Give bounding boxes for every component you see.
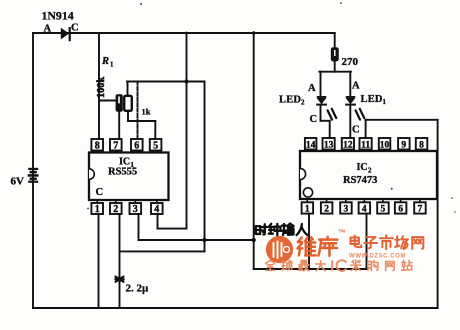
svg-text:C: C (96, 187, 104, 198)
svg-text:LED: LED (279, 95, 301, 106)
svg-text:6: 6 (134, 141, 139, 152)
svg-text:14: 14 (306, 141, 316, 151)
svg-text:WWW.DZSC.COM: WWW.DZSC.COM (349, 254, 406, 260)
svg-text:LED: LED (361, 94, 383, 105)
svg-text:2: 2 (324, 205, 329, 215)
svg-text:5: 5 (381, 205, 386, 215)
svg-text:RS7473: RS7473 (343, 175, 377, 186)
svg-text:5: 5 (153, 141, 158, 152)
svg-text:1: 1 (95, 204, 100, 215)
svg-text:C: C (71, 22, 79, 33)
svg-text:7: 7 (113, 141, 118, 152)
svg-text:12: 12 (343, 141, 353, 151)
svg-text:11: 11 (361, 141, 370, 151)
svg-text:TM: TM (339, 229, 346, 234)
svg-text:100k: 100k (96, 77, 107, 98)
svg-text:2. 2μ: 2. 2μ (126, 283, 150, 295)
svg-text:270: 270 (342, 56, 359, 68)
svg-text:1k: 1k (142, 107, 151, 117)
svg-text:7: 7 (418, 205, 423, 215)
svg-text:C: C (352, 125, 360, 136)
svg-text:R: R (101, 56, 109, 67)
svg-text:9: 9 (401, 141, 406, 151)
svg-text:2: 2 (368, 167, 372, 175)
svg-text:8: 8 (95, 141, 100, 152)
svg-text:3: 3 (133, 204, 138, 215)
svg-text:A: A (308, 83, 316, 94)
svg-text:1: 1 (305, 205, 310, 215)
svg-text:4: 4 (362, 205, 367, 215)
svg-text:1: 1 (110, 61, 114, 69)
svg-text:C: C (310, 114, 318, 125)
svg-text:4: 4 (154, 204, 159, 215)
svg-text:6V: 6V (11, 176, 25, 188)
svg-text:A: A (44, 23, 52, 34)
svg-text:2: 2 (301, 99, 305, 107)
svg-text:IC: IC (357, 162, 368, 173)
svg-text:3: 3 (344, 205, 349, 215)
svg-text:1N914: 1N914 (42, 9, 74, 23)
svg-text:A: A (352, 81, 360, 92)
svg-text:2: 2 (113, 204, 118, 215)
svg-text:RS555: RS555 (108, 167, 137, 178)
svg-text:10: 10 (380, 141, 390, 151)
svg-text:6: 6 (398, 205, 403, 215)
svg-text:1: 1 (383, 98, 387, 106)
svg-text:8: 8 (419, 141, 424, 151)
svg-text:13: 13 (324, 141, 334, 151)
